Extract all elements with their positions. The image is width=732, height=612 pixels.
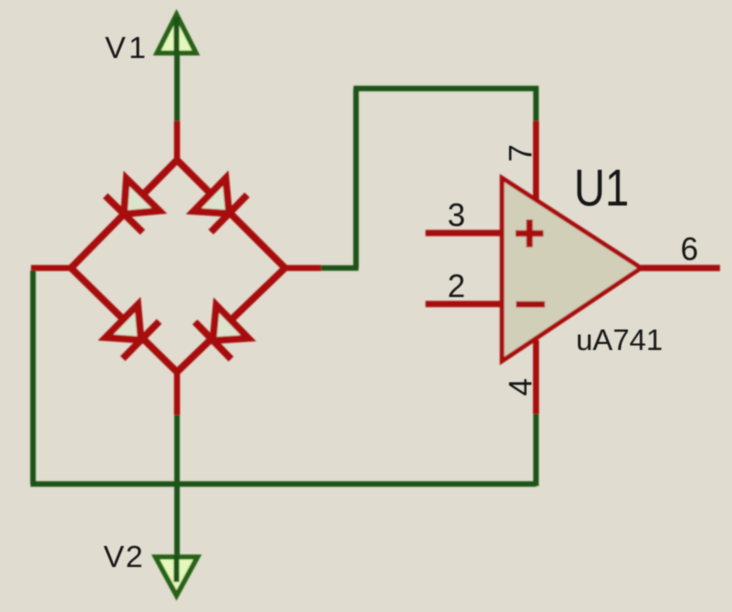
wire: green V2 shaft (177,415)-(177,592): [174, 415, 180, 592]
wire: green down to pin7 (536,88)-(536,121): [533, 86, 539, 121]
power terminal V1 (arrow up): [157, 15, 196, 56]
wire: green right vertical to pin4 (536,484)-(536,414): [533, 414, 539, 486]
pin number 2: [448, 268, 466, 304]
svg-text:6: 6: [681, 231, 699, 267]
svg-text:4: 4: [503, 378, 539, 396]
diode bridge bottom-left (anode at left node, cathode toward bottom node): [106, 305, 160, 359]
wire: red stub left node (31,268)-(71,268): [31, 265, 71, 271]
wire: pin 2 input (425,304)-(502,304): [426, 301, 503, 307]
op-amp inverting - mark: [516, 301, 545, 307]
wire: red stub right node (285,268)-(321,268): [285, 265, 321, 271]
wire: green top run (356,88)-(536,88): [354, 86, 539, 92]
power terminal V2 (arrow down): [156, 555, 198, 596]
wire: bridge diamond edges: [71, 160, 285, 372]
label V2: [104, 539, 145, 574]
diode bridge top-left (anode at top node, cathode toward left node): [105, 179, 159, 233]
wire: green riser (356,268)-(356,88): [353, 89, 359, 269]
svg-text:3: 3: [448, 197, 466, 233]
label U1: [574, 160, 629, 218]
svg-text:V2: V2: [104, 539, 145, 574]
wire: green left vertical (33,268)-(33,484): [30, 271, 36, 485]
pin number 3: [448, 197, 466, 233]
op-amp U1 triangle: [502, 178, 641, 361]
wire: V1 shaft green (177,15)-(177,121): [174, 16, 180, 121]
svg-text:7: 7: [503, 144, 539, 162]
diode bridge bottom-right (anode at right node, cathode toward bottom node): [195, 305, 249, 359]
wire: green bottom rail (33,484)-(536,484): [31, 481, 537, 487]
wire: red pin 7 segment (536,121)-(536,200): [533, 121, 539, 200]
wire: red bridge bottom (177,372)-(177,415): [174, 372, 180, 415]
wire: pin 6 output (641,268)-(720,268): [641, 265, 720, 271]
op-amp noninverting + mark: [516, 220, 544, 248]
wire: red V1 to bridge top (177,121)-(177,160): [174, 121, 180, 162]
svg-text:2: 2: [448, 268, 466, 304]
pin number 6: [681, 231, 699, 267]
pin number 7 (rotated): [503, 144, 539, 162]
svg-text:uA741: uA741: [576, 324, 663, 357]
wire: pin 3 input (425,233)-(502,233): [426, 230, 503, 236]
label V1: [105, 30, 149, 65]
label uA741: [576, 324, 663, 357]
wire: green right node to riser (321,268)-(356,268): [321, 265, 359, 271]
svg-text:V1: V1: [105, 30, 149, 65]
diode bridge top-right (anode at top node, cathode toward right node): [194, 178, 248, 232]
wire: red pin 4 segment (536,414)-(536,340): [533, 340, 539, 414]
pin number 4 (rotated): [503, 378, 539, 396]
svg-text:U1: U1: [574, 160, 629, 218]
